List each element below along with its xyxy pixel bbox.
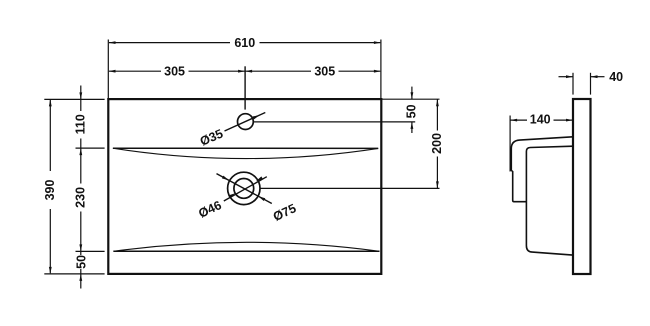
label Ø75 <box>271 201 298 224</box>
side view back panel <box>573 99 591 274</box>
dimension 200 <box>430 99 444 188</box>
svg-text:610: 610 <box>234 36 255 50</box>
svg-text:110: 110 <box>73 114 87 134</box>
extension line at 110/230 boundary <box>76 147 105 149</box>
waste hole leader Ø75 with arrows <box>217 174 272 204</box>
basin front view outline <box>108 99 381 274</box>
label 110 <box>73 114 87 134</box>
tap hole circle Ø35 <box>238 114 254 130</box>
svg-text:230: 230 <box>73 187 87 208</box>
dimension 305 left <box>109 65 246 79</box>
dimension 610 extension line left <box>107 40 109 99</box>
label 230 <box>73 187 87 208</box>
dimension 40 <box>559 70 624 84</box>
waste hole outer circle Ø75 <box>228 172 260 204</box>
extension line at 230/50 boundary <box>76 250 105 252</box>
side view basin inner rim and bottom profile <box>526 146 572 255</box>
label 50 left <box>74 255 88 269</box>
waste hole inner circle Ø46 <box>234 179 254 199</box>
extension line from waste hole to right dims <box>260 187 439 189</box>
label Ø46 <box>196 198 223 221</box>
basin inner rim upper curve <box>113 148 378 158</box>
svg-text:50: 50 <box>404 104 418 118</box>
dimension 40 extension lines <box>573 73 591 95</box>
dimension 610 <box>109 36 381 50</box>
svg-text:305: 305 <box>164 65 185 79</box>
dimension 390 extension line bottom <box>44 273 104 275</box>
svg-text:305: 305 <box>314 65 335 79</box>
side view basin outer profile <box>511 137 573 202</box>
svg-text:140: 140 <box>530 113 551 127</box>
label Ø35 <box>198 127 225 149</box>
dimension 390 <box>43 99 57 274</box>
extension line from tap hole to right dims <box>253 121 415 123</box>
dimension 305 right <box>245 65 381 79</box>
extension line top right of basin <box>382 98 440 100</box>
svg-text:40: 40 <box>609 70 623 84</box>
svg-text:50: 50 <box>74 255 88 269</box>
dimension 610 extension line right <box>380 40 382 99</box>
waste hole leader Ø46 with arrows <box>224 176 267 201</box>
tap hole leader line with arrow <box>225 113 266 132</box>
stacked dimension line 110/230/50 <box>79 86 82 289</box>
dimension 50 right <box>404 87 418 133</box>
svg-text:200: 200 <box>430 133 444 154</box>
basin bowl lower curve <box>113 242 379 251</box>
tap hole centerline <box>244 66 246 109</box>
dimension 140 extension line left <box>509 116 511 172</box>
svg-text:390: 390 <box>43 180 57 201</box>
dimension 390 extension line top <box>44 98 104 100</box>
dimension 140 <box>510 113 573 127</box>
